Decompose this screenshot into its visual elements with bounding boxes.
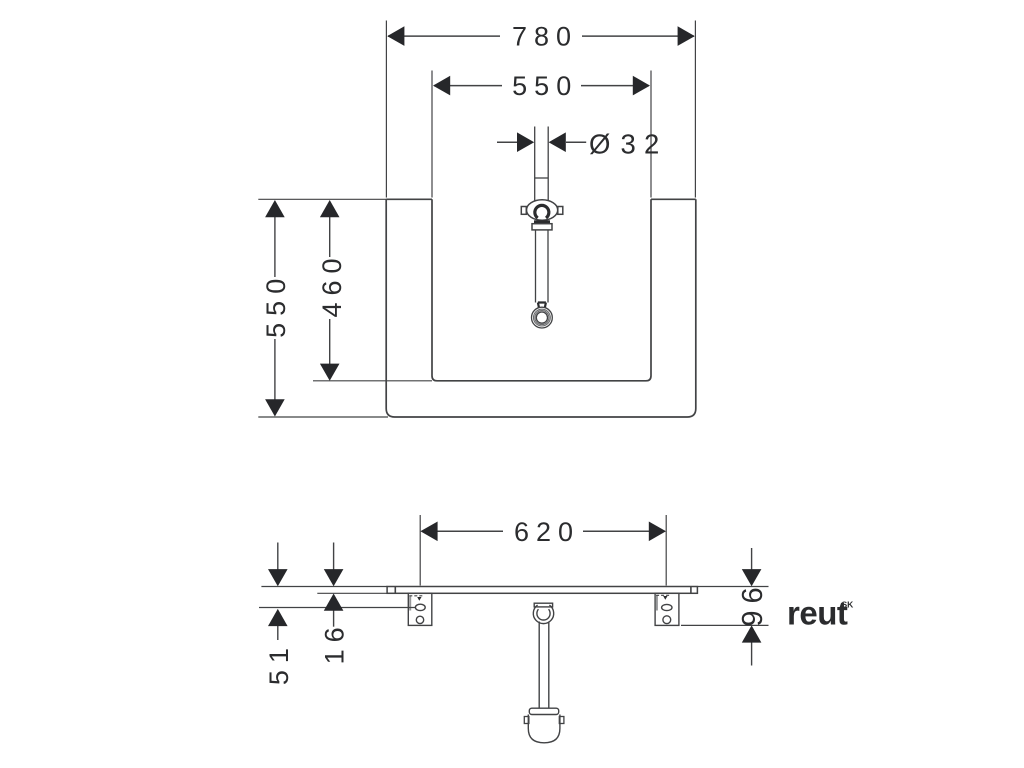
arrow 780 left: [387, 26, 404, 46]
drain pipe upper (top view): [534, 127, 536, 202]
fitting lug right: [558, 207, 563, 215]
trap pipe: [538, 622, 540, 709]
trap collar: [529, 708, 558, 714]
fitting lug left: [521, 207, 526, 215]
dim line 780: [388, 35, 500, 37]
extension line 780 right: [694, 21, 696, 198]
fitting horseshoe ring: [535, 205, 549, 218]
svg-text:16: 16: [319, 620, 349, 664]
arrow d32 right: [549, 132, 566, 152]
basin rim top edge left: [386, 198, 432, 200]
arrow 460 bottom: [320, 364, 340, 381]
bracket right slot hole: [662, 604, 672, 610]
svg-text:620: 620: [514, 517, 580, 547]
extension line 620 right: [665, 515, 667, 586]
bracket right circle hole: [663, 616, 671, 624]
extension line 780 left: [385, 21, 387, 198]
trap cup tab left: [524, 717, 529, 724]
arrow 96 up: [742, 625, 762, 642]
arrow 16 down: [324, 569, 344, 586]
svg-text:SK: SK: [842, 600, 855, 610]
fitting flange: [532, 224, 552, 230]
svg-text:780: 780: [512, 22, 578, 52]
arrow 550 left: [433, 76, 450, 96]
arrow 96 down: [742, 569, 762, 586]
drain ring outer: [532, 307, 553, 328]
bracket right: [655, 593, 679, 625]
svg-text:Ø: Ø: [589, 128, 610, 159]
extension line slot center: [259, 607, 415, 609]
svg-text:550: 550: [512, 71, 578, 101]
bracket right hidden edge: [656, 596, 658, 611]
arrow 620 right: [649, 522, 666, 542]
svg-text:550: 550: [261, 272, 291, 338]
trap horseshoe inner: [537, 609, 550, 620]
bracket left circle hole: [416, 616, 423, 623]
arrow d32 left: [517, 132, 534, 152]
extension line inner bottom left: [313, 380, 432, 382]
arrow 51 up: [268, 609, 288, 626]
drain neck: [538, 303, 546, 308]
arrow 16 up: [324, 594, 344, 611]
lower view: extension line 620 left: [419, 515, 421, 586]
arrow 550v bottom: [265, 399, 285, 416]
arrow 780 right: [678, 26, 695, 46]
arrow 51 down: [268, 569, 288, 586]
bracket left hidden dashes: [409, 595, 423, 597]
dim line 550: [434, 85, 502, 87]
trap horseshoe outer: [533, 605, 553, 624]
extension line plate top left: [261, 586, 387, 588]
extension line 550 left: [431, 71, 433, 198]
dim line 460 vertical: [329, 216, 331, 257]
svg-text:51: 51: [264, 641, 294, 685]
arrow 550 right: [633, 76, 650, 96]
fitting dark bar: [534, 220, 550, 223]
dim line diameter 32: [497, 141, 518, 143]
trap cup tab right: [559, 717, 564, 724]
bracket left: [408, 593, 432, 625]
svg-text:reut: reut: [787, 595, 848, 632]
plate end tick left: [394, 587, 396, 594]
extension line bracket bottom right: [681, 624, 769, 626]
pipe joint tick: [535, 177, 549, 179]
extension line outer bottom left: [258, 416, 388, 418]
bracket left slot hole: [415, 604, 425, 610]
arrow 550v top: [265, 200, 285, 217]
extension line plate bottom left: [317, 592, 387, 594]
logo reut: [787, 595, 854, 632]
svg-text:460: 460: [317, 251, 347, 317]
trap cap: [534, 603, 552, 607]
drain fitting ellipse: [527, 200, 558, 220]
dim line 620: [422, 530, 504, 532]
console plate (front view): [387, 587, 697, 594]
dim line 550 vertical: [274, 216, 276, 277]
dim 16 tails: [333, 543, 335, 571]
svg-text:96: 96: [737, 580, 769, 626]
bracket right hidden dashes: [656, 594, 670, 596]
drain ring mid: [534, 309, 551, 326]
extension line 550 right: [650, 71, 652, 198]
arrow 460 top: [320, 200, 340, 217]
drain pipe lower (top view): [535, 230, 537, 303]
plate end tick right: [690, 587, 692, 594]
extension line top edge left: [258, 198, 386, 200]
dim 51 tails: [277, 543, 279, 571]
basin rim top edge right: [651, 198, 696, 200]
extension line plate top right: [698, 586, 769, 588]
arrow 620 left: [420, 522, 437, 542]
basin outer outline (top view): [386, 199, 696, 417]
bracket left hidden edge: [409, 596, 411, 611]
basin inner U outline: [432, 199, 651, 380]
svg-text:32: 32: [621, 128, 668, 159]
drain ring inner: [536, 312, 547, 323]
dim 96 tails: [751, 548, 753, 570]
trap cup: [528, 715, 560, 743]
